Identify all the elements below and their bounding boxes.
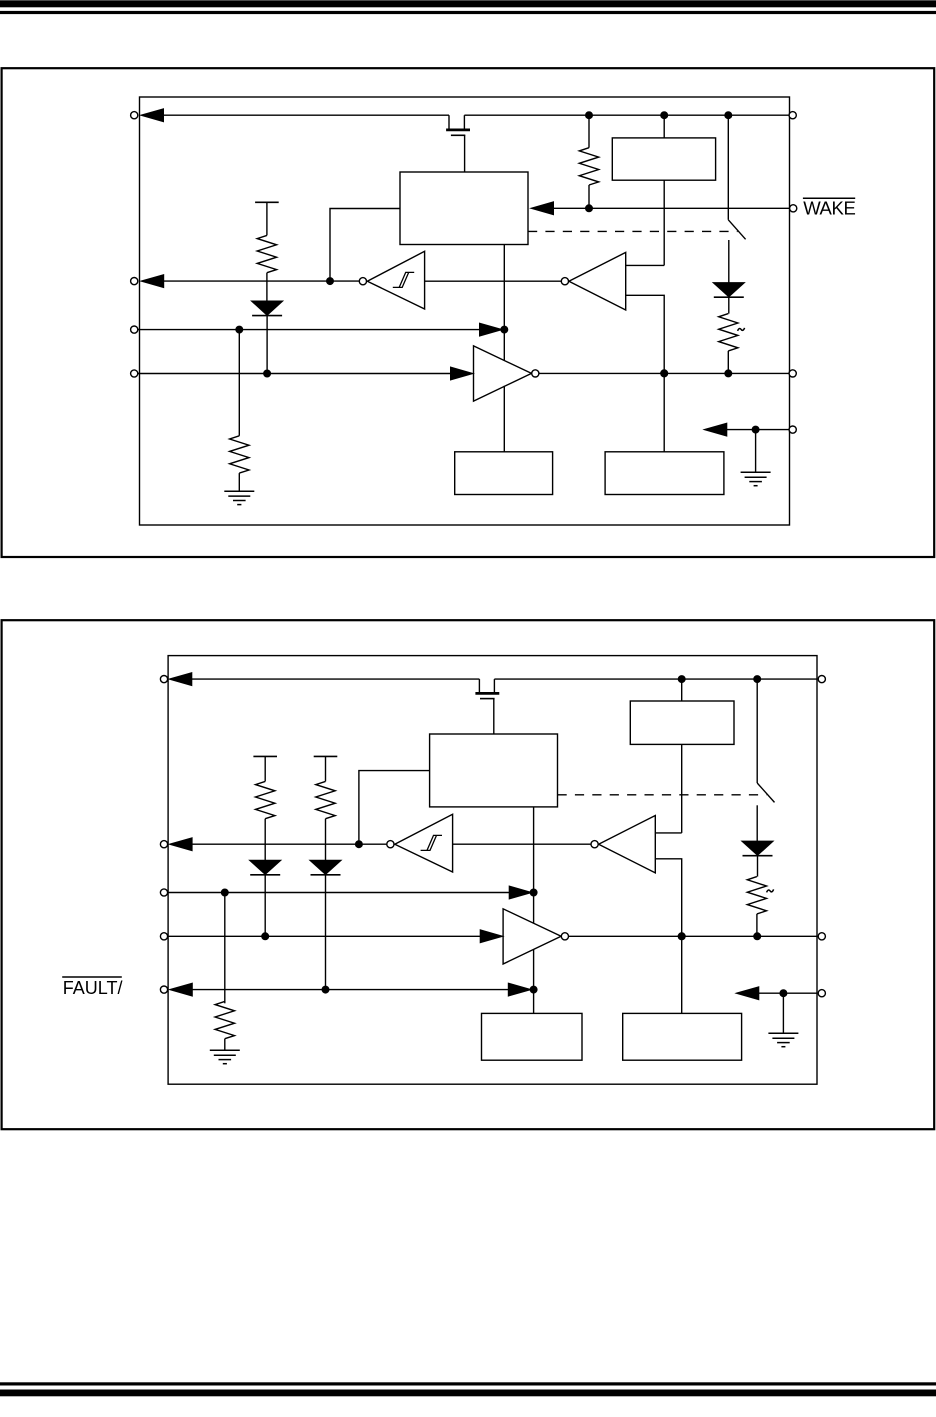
resistor R6: [316, 756, 335, 860]
ground GND2: [741, 472, 771, 485]
resistor R3: [230, 330, 249, 492]
arrow into driver: [451, 367, 473, 379]
arrow TXD into node: [480, 323, 502, 335]
node TXD-R3: [236, 326, 243, 333]
arrow TXD into node 2: [509, 886, 531, 898]
ground GND3: [210, 1050, 240, 1063]
block wake-receiver U1: [400, 172, 528, 245]
wire GND row: [726, 429, 789, 431]
terminal VBAT right 2: [818, 676, 825, 683]
resistor R2: [257, 202, 276, 301]
terminal VBAT right: [789, 112, 796, 119]
wire VCC rail left: [163, 114, 449, 116]
diode D3: [250, 860, 280, 936]
bubble U11: [387, 841, 394, 848]
wire CANL right: [569, 935, 818, 937]
resistor R1: [579, 115, 598, 208]
wire switch top 2: [756, 679, 758, 783]
bubble U3: [561, 278, 568, 285]
resistor R4: [719, 314, 738, 374]
block timer U7: [605, 452, 724, 495]
wire U3 upper stub: [626, 264, 665, 266]
pin RXD arrow: [142, 275, 164, 287]
op-amp U11 (schmitt): [395, 814, 453, 872]
wire RXD: [163, 280, 359, 282]
wire TXD 2: [168, 892, 510, 894]
diode D5: [742, 841, 772, 876]
bubble U5: [532, 370, 539, 377]
bubble U4: [359, 278, 366, 285]
transistor Q2: [475, 679, 499, 734]
wire switch control (dashed): [528, 230, 738, 232]
wire WAKE: [553, 207, 790, 209]
node GND-drop 2: [780, 990, 787, 997]
wire TXD-U1 lower: [503, 386, 505, 452]
wire U10 upper stub: [655, 832, 681, 834]
node rail-osc 2: [678, 676, 685, 683]
terminal RXD 2: [160, 841, 167, 848]
wire timer lead: [663, 373, 665, 452]
label WAKE: [803, 198, 856, 219]
resistor R8: [747, 877, 766, 937]
wire CANH right: [539, 372, 790, 374]
wire RXD 2: [192, 843, 387, 845]
wire GND drop: [755, 430, 757, 473]
header rule thin: [0, 12, 936, 14]
op-amp U12 (driver): [503, 909, 561, 964]
resistor R5: [256, 756, 275, 860]
wire switch bottom 2: [756, 805, 758, 841]
wire FAULT: [192, 989, 510, 991]
node RX-timer 2: [678, 933, 685, 940]
block temp-protection U6: [455, 452, 553, 495]
footer rule thick: [0, 1390, 936, 1395]
node TXD-U1: [501, 326, 508, 333]
wire CANL left: [168, 935, 482, 937]
pin VCC arrow 2: [170, 673, 192, 685]
arrow into driver 2: [480, 930, 502, 942]
terminal TXD 2: [160, 889, 167, 896]
symbol hysteresis U11: [421, 835, 442, 850]
node rail-switch: [725, 112, 732, 119]
wire U2 bottom lead: [663, 180, 665, 265]
figure frame 2: [2, 620, 935, 1129]
terminal GND right: [789, 426, 796, 433]
diode D1: [252, 301, 282, 373]
wire U2 top lead: [663, 115, 665, 138]
label FAULT: [62, 977, 122, 998]
arrow GND2 row: [737, 987, 759, 999]
terminal VCC left: [131, 112, 138, 119]
arrow WAKE into U1: [532, 202, 554, 214]
IC boundary 2: [168, 656, 817, 1085]
bubble U12: [561, 933, 568, 940]
supply bar T1: [255, 201, 279, 203]
node CANH-R4: [725, 370, 732, 377]
op-amp U10 (bus receiver): [599, 816, 656, 873]
label R4 tilde: [738, 328, 745, 331]
wire U10-U11: [453, 843, 591, 845]
block temp-protection U13: [482, 1013, 583, 1060]
terminal CANL left: [160, 933, 167, 940]
node CANL-timer: [678, 933, 685, 940]
wire timer lead 2: [681, 936, 683, 1013]
terminal CANL right: [818, 933, 825, 940]
switch SW2 blade: [757, 783, 774, 802]
wire CANH left: [138, 373, 452, 375]
supply bar T2: [253, 755, 277, 757]
switch SW1 blade: [728, 220, 745, 240]
wire VCC rail left 2: [191, 678, 479, 680]
wire U8 left lead: [359, 771, 430, 845]
node RX-timer: [661, 370, 668, 377]
wire U1 left lead: [330, 209, 400, 282]
IC boundary 1: [140, 97, 790, 525]
diode D4: [310, 860, 340, 989]
diode D2: [714, 283, 744, 314]
wire TXD-U8 upper: [533, 807, 535, 923]
wire U9 bottom lead: [681, 744, 683, 833]
node TXD-R7: [222, 889, 229, 896]
node rail-R1: [586, 112, 593, 119]
terminal WAKE: [790, 205, 797, 212]
node RXD-U1: [327, 278, 334, 285]
svg-text:WAKE: WAKE: [803, 198, 855, 219]
wire GND drop 2: [782, 993, 784, 1033]
transistor Q1: [446, 115, 470, 172]
terminal CANH right: [789, 370, 796, 377]
pin VCC arrow: [142, 109, 164, 121]
footer rule thin: [0, 1383, 936, 1385]
figure frame 1: [2, 68, 935, 557]
block oscillator U9: [630, 701, 734, 744]
block wake-receiver U8: [430, 734, 558, 807]
op-amp U3 (bus receiver): [569, 252, 626, 310]
pin FAULT arrow: [170, 983, 192, 995]
node CANL-R8: [754, 933, 761, 940]
svg-text:FAULT/: FAULT/: [63, 978, 123, 998]
header rule thick: [0, 1, 936, 7]
block timer U14: [623, 1013, 742, 1060]
wire U10 lower stub: [655, 859, 681, 937]
label R8 tilde: [767, 889, 774, 892]
ground GND1: [224, 491, 254, 504]
ground GND4: [768, 1033, 798, 1046]
wire switch bottom: [728, 240, 730, 283]
terminal VCC left 2: [160, 676, 167, 683]
node CANH-timer: [661, 370, 668, 377]
pin RXD arrow 2: [170, 838, 192, 850]
node WAKE-R1: [586, 205, 593, 212]
terminal RXD: [131, 278, 138, 285]
arrow FAULT into node: [509, 983, 531, 995]
wire TXD-U1 upper: [503, 245, 505, 362]
supply bar T3: [314, 755, 338, 757]
wire U9 top lead: [681, 679, 683, 701]
node D3-CANH: [262, 933, 269, 940]
wire VCC rail right 2: [494, 678, 817, 680]
arrow GND1 row: [705, 423, 727, 435]
terminal TXD: [131, 326, 138, 333]
wire TXD: [138, 329, 481, 331]
node FAULT-node: [530, 986, 537, 993]
wire GND row 2: [758, 992, 817, 994]
wire VCC rail right: [464, 114, 789, 116]
node rail-osc: [661, 112, 668, 119]
op-amp U5 (driver): [474, 346, 532, 401]
op-amp U4 (schmitt): [367, 251, 424, 309]
terminal FAULT: [160, 986, 167, 993]
resistor R7: [215, 893, 234, 1051]
node TXD-U8: [530, 889, 537, 896]
wire U3 lower stub: [626, 295, 665, 373]
wire switch control 2 (dashed): [558, 794, 767, 796]
node rail-switch 2: [754, 676, 761, 683]
node D1-CANH: [264, 370, 271, 377]
node D4-FAULT: [322, 986, 329, 993]
node GND-drop: [752, 426, 759, 433]
terminal GND right 2: [818, 990, 825, 997]
block oscillator U2: [612, 138, 715, 180]
node RXD-U8: [356, 841, 363, 848]
wire U3-U4: [425, 280, 562, 282]
terminal CANH left: [131, 370, 138, 377]
symbol hysteresis U4: [393, 272, 414, 287]
wire switch top: [727, 115, 729, 220]
wire TXD-U8 lower: [533, 949, 535, 1013]
bubble U10: [591, 841, 598, 848]
